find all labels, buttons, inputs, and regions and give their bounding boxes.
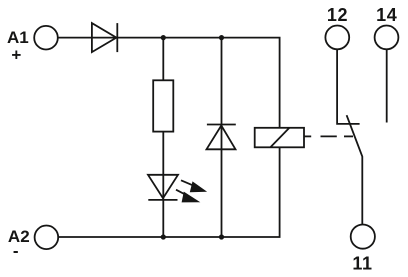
- contact arm (movable contact to terminal 11): [347, 115, 363, 224]
- LED arrow 2: [176, 190, 200, 203]
- svg-text:12: 12: [327, 5, 348, 25]
- LED D2: [148, 175, 178, 200]
- svg-text:14: 14: [376, 5, 397, 25]
- wire contact 14: [386, 49, 388, 122]
- diode D1: [92, 23, 117, 52]
- wire resistor-LED branch: [162, 38, 164, 237]
- svg-text:A1: A1: [7, 28, 29, 47]
- svg-text:11: 11: [352, 254, 372, 274]
- node junction resistor / top rail: [161, 35, 166, 40]
- node junction LED branch / bottom rail: [161, 234, 166, 239]
- svg-text:A2: A2: [8, 227, 30, 246]
- resistor R1: [153, 80, 173, 131]
- suppressor diode D3: [207, 125, 236, 150]
- node junction suppressor diode / top rail: [219, 35, 224, 40]
- wire A1 to diode D1: [58, 37, 118, 39]
- wire top rail to relay branch: [117, 38, 279, 128]
- wire coil bottom to bottom rail, bottom rail to A2: [58, 147, 279, 237]
- terminal 11: [351, 225, 375, 249]
- terminal A2: [35, 226, 59, 250]
- relay coil K1: [255, 128, 304, 148]
- node junction suppressor diode / bottom rail: [219, 234, 224, 239]
- terminal 12: [325, 26, 349, 50]
- terminal A1: [34, 26, 58, 50]
- LED arrow 1: [181, 180, 207, 192]
- svg-text:+: +: [11, 46, 21, 65]
- wire contact 12 with fixed stub: [337, 49, 360, 124]
- dashed actuator link from coil to contact: [304, 135, 353, 137]
- wire suppressor diode branch: [221, 38, 223, 237]
- terminal 14: [375, 26, 399, 50]
- svg-text:-: -: [13, 242, 19, 261]
